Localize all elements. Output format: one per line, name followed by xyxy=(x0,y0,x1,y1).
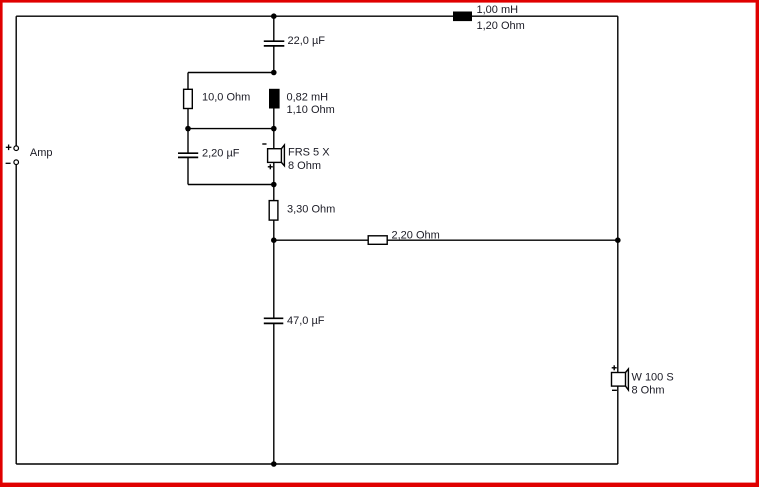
speaker W 100 S xyxy=(612,365,629,390)
capacitor 2,20 uF xyxy=(178,153,198,157)
resistor 10,0 Ohm xyxy=(184,89,193,108)
svg-text:2,20 µF: 2,20 µF xyxy=(202,148,240,160)
capacitor 47,0 uF xyxy=(264,318,284,323)
svg-text:3,30 Ohm: 3,30 Ohm xyxy=(287,204,335,216)
wire mid row xyxy=(188,128,274,130)
junction node below parallel block xyxy=(271,182,277,188)
svg-text:8 Ohm: 8 Ohm xyxy=(288,160,321,172)
svg-text:FRS 5 X: FRS 5 X xyxy=(288,147,330,159)
svg-text:22,0 µF: 22,0 µF xyxy=(288,35,326,47)
junction bottom node xyxy=(271,461,277,467)
svg-text:Amp: Amp xyxy=(30,147,53,159)
terminal - (Amp minus) xyxy=(6,160,19,165)
junction node mid row left xyxy=(185,126,191,132)
wire center column to parallel block xyxy=(273,46,275,73)
wire center column to tap node xyxy=(273,220,275,240)
wire left branch mid xyxy=(187,109,189,129)
wire center below speaker xyxy=(273,162,275,200)
junction node parallel-block top xyxy=(271,70,277,76)
junction node mid row right xyxy=(271,126,277,132)
junction top node xyxy=(271,13,277,19)
svg-text:1,20 Ohm: 1,20 Ohm xyxy=(477,20,525,32)
wire mid horizontal to right bus xyxy=(274,239,618,241)
svg-text:2,20 Ohm: 2,20 Ohm xyxy=(392,230,440,242)
wire center column lower xyxy=(273,240,275,318)
wire parallel block bottom xyxy=(188,184,274,186)
wire center column upper xyxy=(273,16,275,41)
resistor 3,30 Ohm xyxy=(269,201,278,221)
junction node right bus tap xyxy=(615,237,621,243)
svg-text:W 100 S: W 100 S xyxy=(632,372,674,384)
wire right bus upper xyxy=(617,16,619,372)
wire top bus xyxy=(16,15,618,17)
wire parallel block top xyxy=(188,72,274,74)
svg-text:1,00 mH: 1,00 mH xyxy=(477,4,519,16)
wire right bus lower xyxy=(617,386,619,464)
wire center column to bottom bus xyxy=(273,323,275,464)
svg-text:10,0 Ohm: 10,0 Ohm xyxy=(202,92,250,104)
wire left branch lower xyxy=(187,157,189,184)
svg-text:0,82 mH: 0,82 mH xyxy=(287,92,329,104)
terminal + (Amp plus) xyxy=(6,145,19,151)
svg-text:47,0 µF: 47,0 µF xyxy=(287,315,325,327)
wire left bus upper xyxy=(15,16,17,146)
wire left branch to capacitor xyxy=(187,129,189,154)
capacitor 22,0 uF xyxy=(264,41,285,46)
svg-text:8 Ohm: 8 Ohm xyxy=(632,384,665,396)
inductor 1,00 mH xyxy=(453,12,472,22)
wire left bus lower xyxy=(15,165,17,464)
wire center column through mid row xyxy=(273,109,275,149)
inductor 0,82 mH xyxy=(269,89,280,109)
wire left branch upper xyxy=(187,73,189,90)
junction tap node xyxy=(271,237,277,243)
wire bottom bus xyxy=(16,463,618,465)
resistor 2,20 Ohm xyxy=(368,236,387,245)
svg-text:1,10 Ohm: 1,10 Ohm xyxy=(287,104,335,116)
speaker FRS 5 X xyxy=(262,144,284,169)
